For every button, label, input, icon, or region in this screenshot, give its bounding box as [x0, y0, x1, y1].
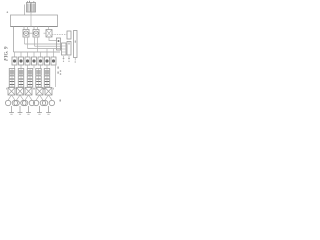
branch wires X5: [45, 95, 52, 100]
gauge G5a: [42, 100, 47, 105]
solenoid S5: [38, 57, 43, 65]
pump P2 (box with circle): [33, 30, 39, 38]
wire P1-P2 link: [29, 32, 33, 34]
actuator stack A2: [18, 69, 24, 88]
wire center drop inside box: [30, 13, 32, 27]
branch wires X2: [17, 95, 24, 100]
label 8b: [60, 73, 62, 75]
wire stub C: [48, 27, 50, 30]
box H (tall right): [74, 31, 78, 58]
wire drop P1 left: [24, 37, 26, 44]
pump P1 (box with circle): [23, 30, 29, 38]
valve X4: [36, 88, 43, 96]
svg-text:FIG. 9: FIG. 9: [4, 46, 10, 61]
ground lead 3: [26, 106, 31, 114]
ground lead 1: [9, 106, 14, 114]
wires solenoid row to actuator row: [15, 65, 48, 69]
gauge G3a: [22, 100, 27, 105]
label 9b: [60, 100, 61, 102]
solenoid S1: [12, 57, 17, 65]
label 7: [58, 67, 59, 69]
ground lead 4: [37, 106, 42, 114]
branch wires X1: [8, 95, 15, 100]
valve X2: [17, 88, 24, 96]
arrow dots: [63, 61, 64, 62]
gauge G3b: [29, 100, 34, 105]
valve X3: [25, 88, 32, 96]
valve V1 (box with X): [46, 30, 52, 38]
branch wires X4: [36, 95, 43, 100]
wire antenna lead: [24, 5, 26, 16]
arrow under F: [63, 56, 65, 59]
wire long drop col7: [55, 65, 57, 87]
solenoid S4: [32, 57, 37, 65]
arrow under G: [68, 56, 70, 59]
valve X5: [45, 88, 52, 96]
bus line 4: [14, 51, 61, 53]
transformer T1 (hatched box pair at top): [27, 1, 36, 12]
wire left drop: [13, 27, 15, 53]
solenoid S7: [51, 57, 56, 65]
wire stub A: [24, 27, 28, 30]
ground lead 5: [46, 106, 51, 114]
gauge G2a: [14, 100, 19, 105]
gauge G1a: [5, 100, 10, 105]
node label 1: [7, 11, 9, 13]
actuator stack A3: [27, 69, 33, 88]
box 2 bottom edge emphasis: [11, 26, 58, 28]
box E: [57, 38, 61, 50]
gauge G4a: [33, 100, 38, 105]
wire V1 right dashed to D: [52, 34, 67, 36]
bus line 2: [35, 45, 63, 47]
gauge G1b: [12, 100, 17, 105]
box G top tick: [68, 43, 70, 45]
box D (narrow, right top): [67, 31, 71, 39]
arrow under H: [74, 58, 76, 61]
wire drop P1 right: [27, 37, 29, 49]
solenoid valve row: drops from bus: [15, 49, 54, 58]
main unit box 2: [11, 15, 58, 27]
gauge G2b: [21, 100, 26, 105]
ground lead 2: [18, 106, 23, 114]
actuator stack A1: [9, 69, 15, 88]
bus line 3: [28, 48, 63, 50]
wire V1 bottom: [49, 37, 57, 41]
wire V1 left stub: [44, 32, 47, 34]
solenoid S3: [25, 57, 30, 65]
branch wires X3: [25, 95, 32, 100]
valve X1: [8, 88, 15, 96]
gauge G5b: [49, 100, 54, 105]
actuator stack A5: [44, 69, 50, 88]
actuator stack A4: [36, 69, 42, 88]
label 8: [58, 72, 59, 74]
box F (hatched): [62, 43, 67, 55]
gauge G4b: [40, 100, 45, 105]
bus line 1: [25, 43, 61, 45]
solenoid S6: [45, 57, 50, 65]
wire drop P2 left: [34, 37, 36, 46]
valve side ticks: [7, 88, 54, 90]
wire stub B: [34, 27, 38, 30]
wire drop P2 right: [37, 37, 39, 52]
label 8a: [60, 70, 62, 72]
box G: [67, 42, 71, 56]
solenoid S2: [19, 57, 24, 65]
